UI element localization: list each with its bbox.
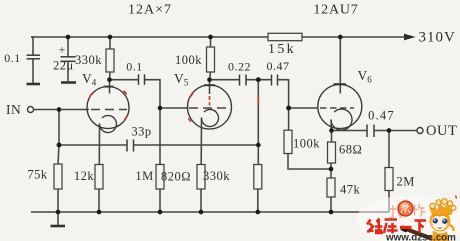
wire IN to V4 grid: [34, 109, 90, 111]
wire V5 grid tap: [160, 107, 188, 109]
node V5 plate: [207, 77, 212, 82]
svg-text:0.1: 0.1: [126, 60, 143, 74]
node ground 47k: [329, 210, 334, 215]
wire 2M bottom lead: [388, 191, 390, 213]
terminal OUT: [417, 128, 423, 134]
grid dashes V6: [320, 107, 354, 109]
wire 33p feedback line left: [59, 144, 127, 146]
ground bar: [51, 225, 66, 228]
svg-text:0.47: 0.47: [368, 109, 395, 123]
red mark feedback node dash: [257, 96, 259, 105]
watermark brand char xia: [415, 221, 427, 234]
resistor 75k: [54, 164, 62, 189]
wire 0.47 out cap to OUT node: [374, 130, 389, 132]
node V6 cathode: [329, 128, 334, 133]
tube V5 cathode loop: [201, 110, 218, 127]
svg-text:0.47: 0.47: [267, 59, 290, 73]
svg-text:68Ω: 68Ω: [339, 143, 362, 157]
node ground 330k: [255, 210, 260, 215]
svg-text:330k: 330k: [75, 53, 102, 67]
wire V6 cathode lead: [330, 120, 332, 131]
resistor 820 ohm: [197, 165, 205, 190]
watermark brand char wei: [367, 219, 383, 234]
wire 68 ohm top lead: [331, 131, 333, 143]
node 330k rail: [108, 35, 113, 40]
wire V5 cathode lead to 820 ohm: [200, 118, 202, 165]
wire 22u cap top lead: [67, 37, 69, 57]
wire 1M bottom lead: [159, 189, 161, 212]
watermark mascot face: [433, 218, 438, 223]
resistor 15k (B+ dropper): [268, 33, 302, 40]
node V6 plate rail: [338, 35, 343, 40]
svg-text:22μ: 22μ: [53, 59, 74, 73]
tube V6 anode bar: [334, 83, 347, 85]
wire 0.1 bypass cap top lead: [31, 37, 33, 55]
grid dashes V4: [91, 109, 127, 111]
wire B+ top rail left section: [31, 36, 268, 38]
wire V6 plate lead from rail: [339, 37, 341, 94]
node ground 75k: [56, 210, 61, 215]
capacitor 0.47 output plates: [367, 125, 374, 138]
wire IN node drop to 75k: [58, 110, 60, 146]
resistor 100k (V5 plate load): [207, 47, 215, 72]
tube V5 anode bar: [204, 84, 215, 86]
wire 100k plate load top lead: [210, 37, 212, 47]
node 33p left: [57, 143, 62, 148]
ground stub: [57, 212, 59, 225]
watermark group: [356, 195, 460, 241]
wire 22u cap bottom lead: [67, 62, 69, 82]
svg-text:12AU7: 12AU7: [313, 3, 358, 18]
wire 0.1 bypass cap bottom lead: [32, 59, 34, 83]
capacitor 0.22 plates: [240, 75, 247, 86]
grid dashes V5: [189, 107, 230, 109]
svg-text:www.dzsc.com: www.dzsc.com: [385, 233, 456, 241]
node 33p right: [256, 143, 261, 148]
wire 0.22 cap to junction: [246, 79, 272, 81]
wire 33p feedback line right: [134, 144, 259, 146]
svg-text:75k: 75k: [27, 168, 48, 182]
resistor 330k (V4 plate load): [106, 49, 114, 72]
svg-text:IN: IN: [6, 102, 21, 117]
wire 0.1 coupling cap to V5 grid drop: [145, 80, 161, 164]
ground bar under 0.1 cap: [27, 83, 41, 86]
resistor 2M: [385, 168, 393, 191]
wire 330k bottom resistor lower lead: [257, 189, 259, 212]
wire 75k top lead: [58, 145, 59, 164]
terminal IN: [28, 107, 34, 113]
tube V4 anode bar: [104, 86, 114, 88]
node OUT: [387, 128, 392, 133]
watermark mascot crown: [430, 199, 457, 218]
wire 12k bottom lead: [98, 189, 100, 212]
wire 100k plate load bottom lead to V5 plate node: [210, 72, 211, 80]
node 100k rail: [208, 35, 213, 40]
resistor 47k: [327, 178, 335, 197]
watermark small red tick top right: [456, 196, 457, 199]
tube V4 envelope: [87, 87, 129, 129]
wire V4 cathode lead to 12k: [98, 124, 100, 165]
tube V4 cathode loop: [99, 116, 116, 133]
node V6 grid: [286, 106, 291, 111]
watermark faint char pian: [415, 204, 426, 217]
wire OUT node to terminal: [389, 130, 417, 132]
red mark V4 rim upper-right: [124, 91, 127, 95]
wire 75k bottom lead: [57, 189, 59, 212]
red mark V5 rim upper-left: [190, 93, 193, 97]
svg-text:310V: 310V: [419, 30, 456, 46]
capacitor 33p plates: [127, 140, 134, 152]
arrow 310V: [404, 34, 416, 41]
wire junction drop to 330k bottom resistor: [257, 80, 259, 165]
svg-text:12k: 12k: [74, 169, 95, 183]
svg-text:2M: 2M: [397, 175, 415, 189]
watermark mascot head: [430, 211, 451, 232]
wire 100k grid resistor bottom to 68/47 junction: [288, 154, 331, 170]
tube V6 cathode loop: [331, 109, 352, 130]
resistor 68 ohm: [328, 142, 336, 163]
svg-text:47k: 47k: [340, 183, 361, 197]
svg-text:15k: 15k: [268, 42, 296, 57]
wire V4 plate node to 0.1 coupling cap: [110, 79, 139, 81]
watermark brand char ku: [384, 220, 398, 234]
wire 68 ohm bottom lead: [330, 163, 332, 169]
node ground 820: [199, 210, 204, 215]
ground bar under 22u cap: [61, 81, 76, 84]
svg-text:820Ω: 820Ω: [161, 170, 191, 184]
watermark red ball: [398, 201, 413, 216]
node V4 plate: [107, 77, 112, 82]
wire 330k top lead: [109, 37, 111, 49]
node 68k/47k junction: [329, 167, 334, 172]
red mark V4 rim lower-right: [125, 116, 128, 120]
svg-text:330k: 330k: [203, 169, 230, 183]
node V5 grid: [158, 106, 163, 111]
svg-text:0.1: 0.1: [4, 51, 21, 65]
capacitor 0.47 plates: [272, 75, 278, 86]
watermark mascot pencil: [404, 227, 436, 241]
watermark mascot body: [432, 231, 450, 241]
node 0.22/0.47 junction: [256, 77, 261, 82]
wire ground bottom rail: [31, 211, 389, 213]
watermark white halo: [356, 195, 460, 241]
svg-text:100k: 100k: [293, 137, 320, 151]
svg-text:33p: 33p: [131, 125, 151, 139]
resistor 330k (bottom): [254, 165, 262, 190]
wire V5 plate node to 0.22 cap: [210, 79, 240, 81]
node IN wire: [57, 107, 62, 112]
svg-text:100k: 100k: [175, 53, 202, 67]
wire 47k top lead: [330, 169, 332, 178]
wire 330k bottom lead to V4 plate node: [109, 72, 112, 80]
capacitor 22u electrolytic plates: [61, 57, 76, 62]
resistor 12k: [95, 165, 103, 190]
svg-text:+: +: [59, 43, 66, 57]
resistor 100k (V6 grid): [284, 130, 292, 153]
node 22u rail: [66, 35, 71, 40]
watermark brand char yi (dash): [400, 226, 412, 229]
svg-text:12A×7: 12A×7: [128, 3, 172, 18]
resistor 1M: [156, 165, 164, 190]
wire 0.47 cap to V6 grid corner: [278, 80, 289, 131]
wire V6 grid tap: [289, 107, 318, 109]
watermark faint char zhao: [390, 206, 403, 219]
wire 820 ohm bottom lead: [200, 189, 202, 212]
red mark V4 rim upper-left: [89, 94, 92, 98]
red mark V5 rim lower-left: [188, 118, 191, 122]
capacitor 0.1 (input bypass) plates: [27, 55, 41, 59]
capacitor 0.1 coupling plates: [139, 74, 145, 85]
node ground 1M: [158, 210, 163, 215]
wire OUT node drop to 2M: [388, 131, 390, 168]
wire V5 plate lead: [209, 80, 211, 94]
node ground 12k: [97, 210, 102, 215]
svg-text:OUT: OUT: [426, 123, 457, 139]
wire V6 cathode node to 0.47 out cap: [332, 130, 368, 132]
tube V6 envelope: [318, 85, 362, 129]
wire 47k bottom lead: [330, 197, 332, 212]
red mark V5 plate dash: [209, 96, 211, 106]
wire B+ top rail right section after 15k: [302, 36, 404, 38]
tube V5 envelope: [188, 85, 232, 129]
wire V4 plate lead: [109, 80, 111, 94]
svg-text:0.22: 0.22: [228, 60, 251, 74]
svg-text:1M: 1M: [135, 169, 153, 183]
